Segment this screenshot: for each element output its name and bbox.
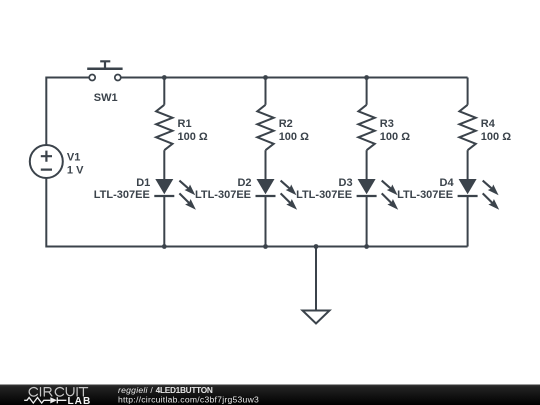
svg-text:100 Ω: 100 Ω (380, 131, 410, 143)
svg-text:100 Ω: 100 Ω (279, 131, 309, 143)
svg-text:R4: R4 (481, 118, 496, 130)
svg-text:LTL-307EE: LTL-307EE (195, 189, 251, 201)
svg-text:LAB: LAB (68, 396, 92, 405)
svg-text:R3: R3 (380, 118, 394, 130)
svg-text:http://circuitlab.com/c3bf7jrg: http://circuitlab.com/c3bf7jrg53uw3 (118, 394, 259, 404)
svg-text:D3: D3 (339, 177, 353, 189)
svg-text:100 Ω: 100 Ω (178, 131, 208, 143)
svg-text:LTL-307EE: LTL-307EE (94, 189, 150, 201)
svg-text:reggieli / 4LED1BUTTON: reggieli / 4LED1BUTTON (118, 385, 213, 395)
svg-text:V1: V1 (67, 151, 80, 163)
svg-text:R2: R2 (279, 118, 293, 130)
svg-text:D2: D2 (237, 177, 251, 189)
svg-text:D1: D1 (136, 177, 150, 189)
svg-text:LTL-307EE: LTL-307EE (397, 189, 453, 201)
svg-text:1 V: 1 V (67, 164, 84, 176)
svg-text:R1: R1 (178, 118, 192, 130)
svg-text:100 Ω: 100 Ω (481, 131, 511, 143)
svg-text:LTL-307EE: LTL-307EE (296, 189, 352, 201)
svg-text:D4: D4 (440, 177, 455, 189)
svg-text:SW1: SW1 (94, 92, 118, 104)
